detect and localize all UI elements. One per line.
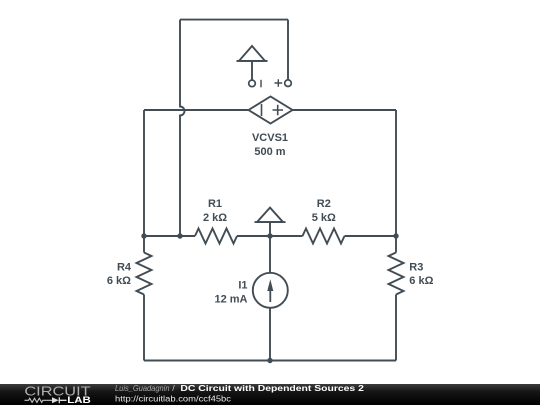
VCVS1 sense terminal right bbox=[285, 80, 292, 87]
current source I1 body bbox=[253, 273, 288, 308]
svg-text:R4: R4 bbox=[117, 261, 132, 273]
svg-text:Luis_Guadagnin: Luis_Guadagnin bbox=[115, 383, 170, 393]
junction dot center R1 row bbox=[267, 233, 272, 238]
node flag triangle above sense terminal bbox=[239, 46, 265, 61]
svg-text:R1: R1 bbox=[208, 198, 222, 210]
wire R1 row middle bbox=[237, 235, 303, 237]
logo diode bbox=[52, 397, 59, 403]
wire left rail lower bbox=[143, 295, 145, 361]
sense minus label bbox=[260, 80, 262, 88]
wire VCVS row right bbox=[293, 109, 397, 111]
wire R1 row left bbox=[144, 235, 195, 237]
node flag triangle above center node bbox=[257, 208, 283, 223]
resistor R3 bbox=[389, 253, 404, 295]
wire top horizontal bbox=[180, 19, 288, 21]
wire center column upper bbox=[269, 236, 271, 273]
svg-text:2 kΩ: 2 kΩ bbox=[203, 212, 227, 224]
svg-text:5 kΩ: 5 kΩ bbox=[312, 212, 336, 224]
wire right rail lower bbox=[395, 295, 397, 361]
resistor R4 bbox=[137, 253, 152, 295]
svg-text:500 m: 500 m bbox=[254, 146, 285, 158]
svg-text:VCVS1: VCVS1 bbox=[252, 132, 288, 144]
wire left rail upper bbox=[143, 110, 145, 253]
svg-text:LAB: LAB bbox=[67, 395, 91, 405]
wire center column lower bbox=[269, 308, 271, 361]
junction dot right R1 row bbox=[393, 233, 398, 238]
VCVS1 minus mark bbox=[261, 104, 263, 116]
node flag stem (sense) bbox=[251, 61, 253, 80]
svg-text:http://circuitlab.com/ccf45bc: http://circuitlab.com/ccf45bc bbox=[115, 394, 232, 404]
wire top-right vertical to sense terminal bbox=[287, 20, 289, 80]
svg-text:I1: I1 bbox=[238, 280, 247, 292]
VCVS1 plus mark bbox=[273, 105, 284, 116]
svg-text:6 kΩ: 6 kΩ bbox=[107, 275, 131, 287]
node flag stem (center) bbox=[269, 222, 271, 236]
svg-text:DC Circuit with Dependent Sour: DC Circuit with Dependent Sources 2 bbox=[180, 383, 364, 393]
svg-text:R2: R2 bbox=[317, 198, 331, 210]
wire right rail upper bbox=[395, 110, 397, 253]
junction dot bottom rail bbox=[267, 358, 272, 363]
node flag base line (sense) bbox=[237, 60, 268, 62]
svg-text:6 kΩ: 6 kΩ bbox=[409, 275, 433, 287]
svg-text:R3: R3 bbox=[409, 261, 423, 273]
wire R1 row right bbox=[345, 235, 397, 237]
junction dot top-rect vertical on R1 row bbox=[177, 233, 182, 238]
node flag base line (center) bbox=[255, 221, 286, 223]
svg-text:12 mA: 12 mA bbox=[214, 293, 247, 305]
wire VCVS row left bbox=[144, 109, 249, 111]
sense plus label bbox=[275, 79, 283, 87]
VCVS1 sense terminal left bbox=[249, 80, 256, 87]
wire top-left vertical with hop over VCVS row bbox=[180, 20, 185, 236]
resistor R1 bbox=[195, 229, 237, 244]
resistor R2 bbox=[303, 229, 345, 244]
VCVS1 diamond body bbox=[249, 97, 293, 124]
wire bottom rail bbox=[144, 360, 396, 362]
junction dot left R1 row bbox=[141, 233, 146, 238]
I1 arrow bbox=[269, 289, 271, 302]
logo resistor squiggle bbox=[25, 398, 53, 402]
